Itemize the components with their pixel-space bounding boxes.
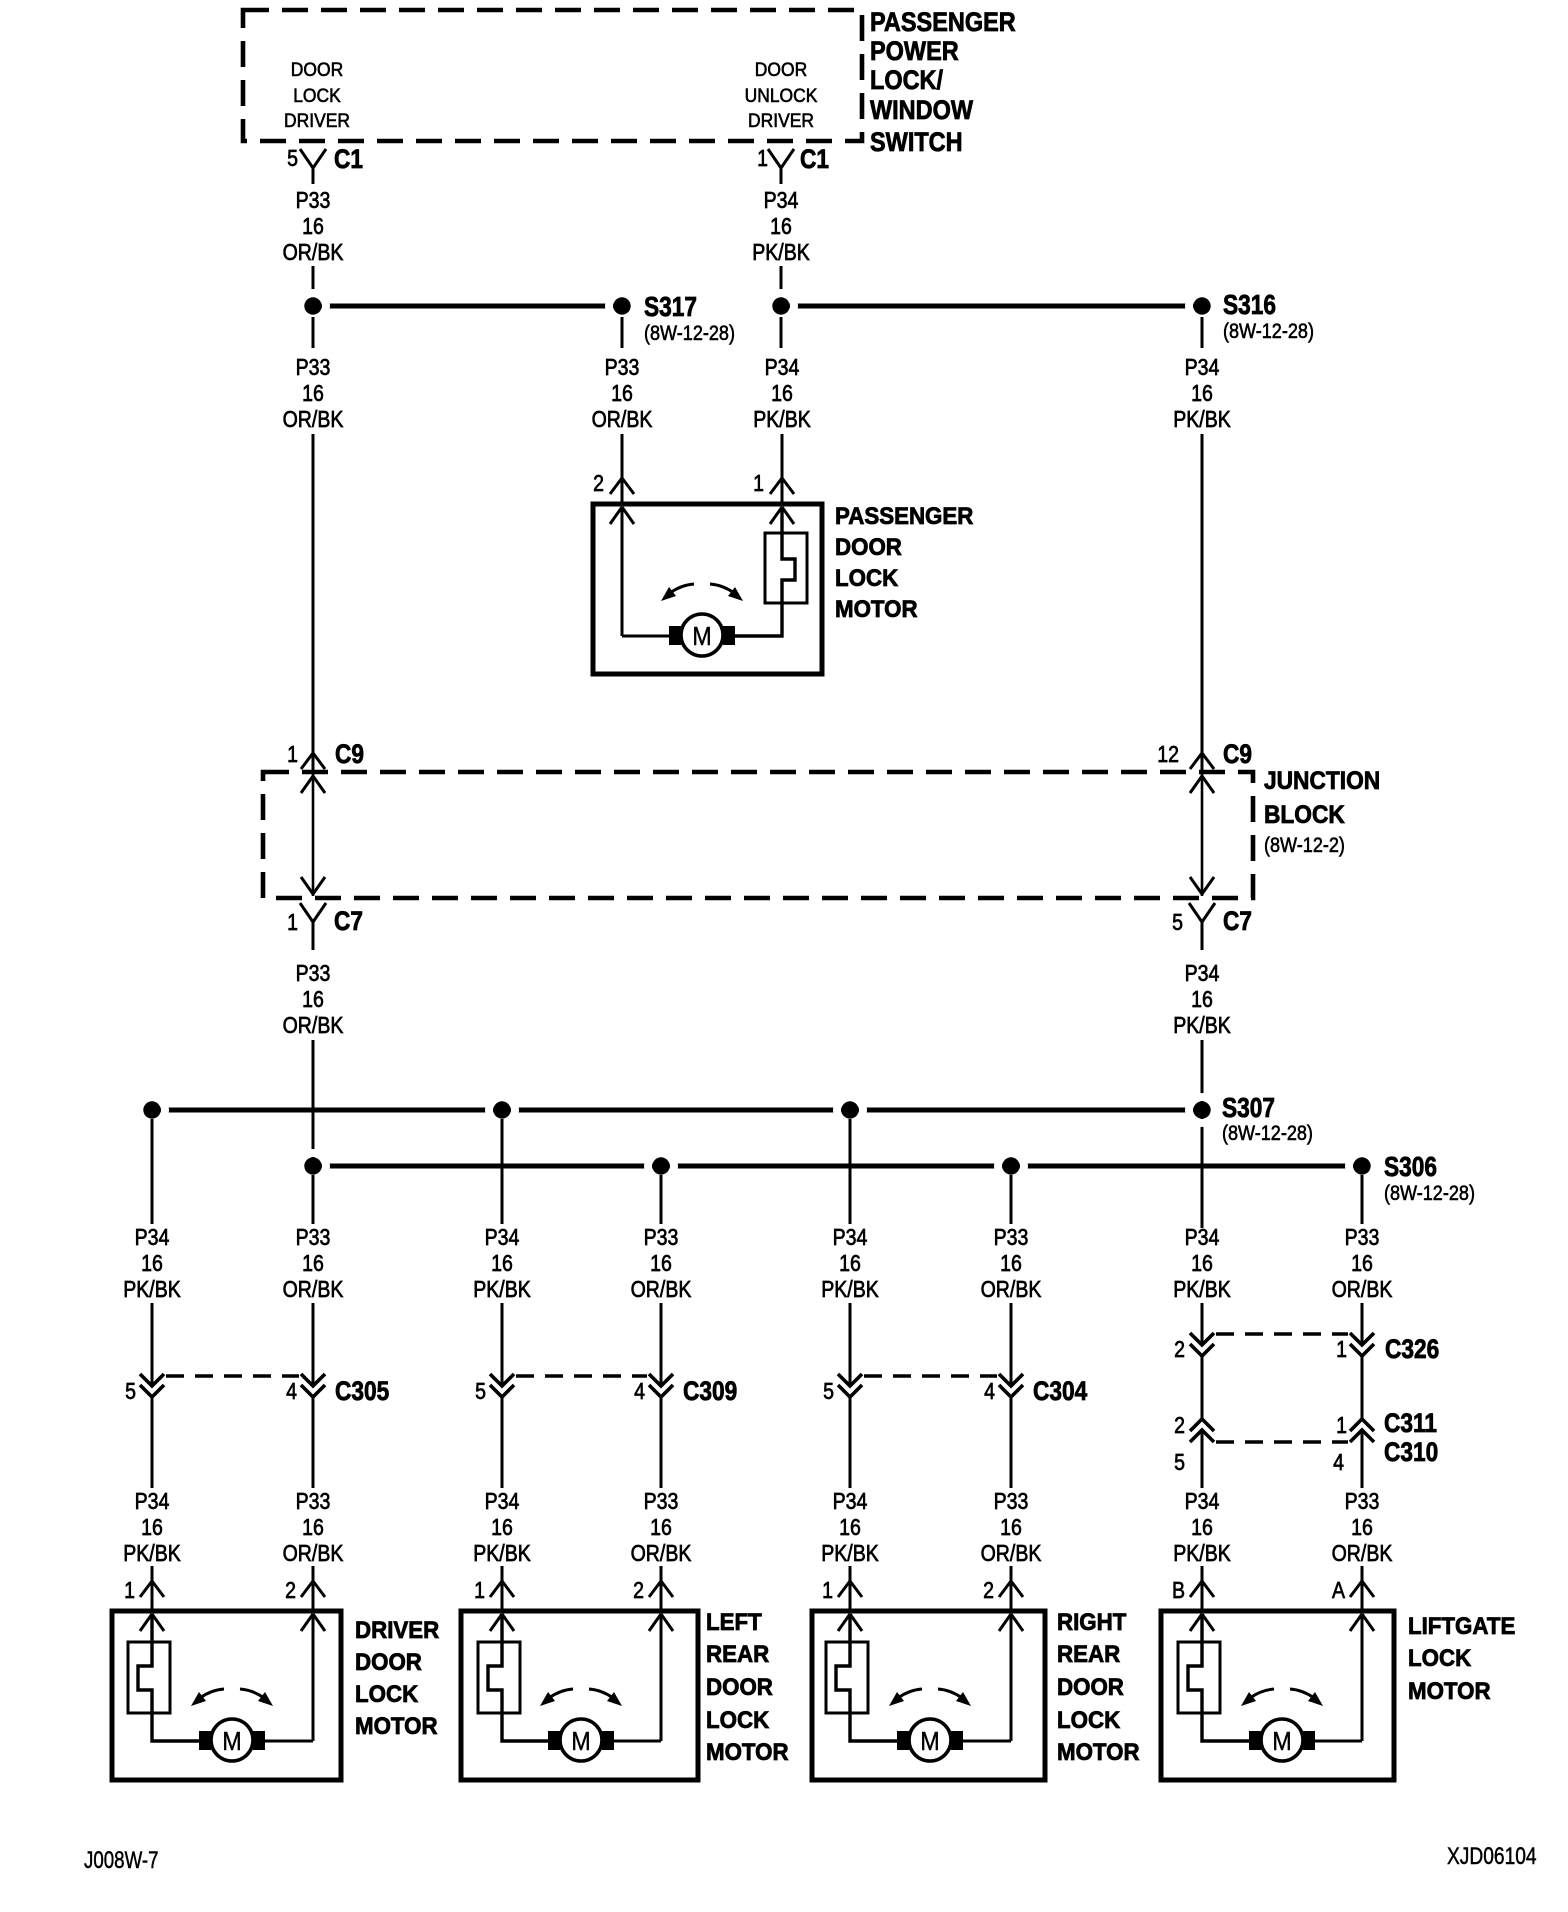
wire	[152, 1303, 313, 1386]
svg-text:P34: P34	[1185, 1489, 1220, 1515]
pin B	[1172, 1578, 1214, 1604]
svg-text:1: 1	[753, 471, 764, 497]
junction block box (dashed)	[263, 772, 1253, 898]
svg-text:P34: P34	[833, 1225, 868, 1251]
svg-text:P34: P34	[1185, 961, 1220, 987]
svg-text:16: 16	[1000, 1251, 1022, 1277]
svg-text:16: 16	[302, 214, 324, 240]
wire label P34/16/PK/BK	[1173, 1225, 1231, 1303]
wire label P34 16 PK/BK	[1173, 355, 1231, 433]
svg-text:PASSENGER: PASSENGER	[870, 8, 1016, 38]
svg-text:16: 16	[1191, 1515, 1213, 1541]
svg-text:(8W-12-28): (8W-12-28)	[1222, 1122, 1313, 1146]
svg-text:PK/BK: PK/BK	[473, 1277, 531, 1303]
svg-text:REAR: REAR	[1057, 1640, 1120, 1667]
svg-text:P33: P33	[994, 1225, 1029, 1251]
svg-text:PK/BK: PK/BK	[1173, 1013, 1231, 1039]
svg-text:2: 2	[593, 471, 604, 497]
svg-text:P34: P34	[1185, 355, 1220, 381]
svg-text:16: 16	[650, 1515, 672, 1541]
splice S307 label	[1222, 1093, 1313, 1146]
svg-text:5: 5	[1174, 1450, 1185, 1476]
wire	[265, 1614, 313, 1741]
wire	[312, 1566, 315, 1612]
svg-text:C9: C9	[1223, 739, 1252, 769]
door unlock driver label	[745, 58, 818, 131]
svg-text:MOTOR: MOTOR	[355, 1712, 438, 1739]
wire	[501, 1566, 504, 1612]
motor M	[669, 614, 735, 656]
wire	[1201, 434, 1204, 772]
svg-text:REAR: REAR	[706, 1640, 769, 1667]
wire	[1361, 1566, 1364, 1612]
svg-text:PK/BK: PK/BK	[1173, 1277, 1231, 1303]
switch box label	[870, 8, 1016, 158]
wire label P34/16/PK/BK	[821, 1225, 879, 1303]
svg-text:16: 16	[650, 1251, 672, 1277]
svg-text:PK/BK: PK/BK	[752, 240, 810, 266]
svg-text:OR/BK: OR/BK	[631, 1541, 692, 1567]
wire	[1201, 1040, 1204, 1228]
svg-text:P34: P34	[135, 1489, 170, 1515]
wire	[780, 266, 783, 297]
wire label P33 16 OR/BK	[592, 355, 653, 433]
svg-text:5: 5	[823, 1379, 834, 1405]
svg-text:16: 16	[611, 381, 633, 407]
svg-text:16: 16	[141, 1251, 163, 1277]
rotation arrows	[1241, 1689, 1323, 1706]
svg-text:16: 16	[1351, 1515, 1373, 1541]
node	[489, 1097, 515, 1123]
svg-text:OR/BK: OR/BK	[981, 1541, 1042, 1567]
wire	[151, 1119, 154, 1224]
splice S316	[1189, 290, 1314, 344]
driver door lock motor box	[112, 1611, 341, 1780]
svg-text:16: 16	[302, 987, 324, 1013]
right rear door lock motor box	[812, 1611, 1045, 1780]
svg-text:C326: C326	[1385, 1334, 1439, 1364]
wire entry arrow	[610, 507, 634, 524]
wire	[849, 1119, 852, 1224]
wire	[660, 1566, 663, 1612]
svg-text:2: 2	[1174, 1413, 1185, 1439]
wire entry arrow	[999, 1614, 1023, 1631]
svg-text:16: 16	[141, 1515, 163, 1541]
wire entry arrow	[301, 1614, 325, 1631]
svg-text:P33: P33	[1345, 1225, 1380, 1251]
svg-text:OR/BK: OR/BK	[631, 1277, 692, 1303]
svg-text:UNLOCK: UNLOCK	[745, 84, 818, 106]
svg-text:16: 16	[771, 381, 793, 407]
svg-text:16: 16	[302, 1251, 324, 1277]
svg-text:OR/BK: OR/BK	[592, 407, 653, 433]
svg-text:LOCK: LOCK	[1408, 1644, 1471, 1671]
wire entry arrow	[838, 1614, 862, 1631]
wire	[1201, 317, 1204, 348]
wire	[1010, 1566, 1013, 1612]
connector C7 pin 5	[1172, 903, 1252, 950]
svg-text:1: 1	[124, 1578, 135, 1604]
svg-text:PK/BK: PK/BK	[1173, 1541, 1231, 1567]
passenger power lock/window switch box (dashed)	[243, 10, 862, 141]
svg-text:(8W-12-28): (8W-12-28)	[1223, 320, 1314, 344]
svg-text:16: 16	[839, 1515, 861, 1541]
svg-text:S307: S307	[1222, 1093, 1275, 1124]
svg-text:P34: P34	[765, 355, 800, 381]
svg-text:(8W-12-28): (8W-12-28)	[644, 322, 735, 346]
wire	[660, 1175, 663, 1224]
svg-text:M: M	[222, 1728, 241, 1756]
svg-text:PK/BK: PK/BK	[1173, 407, 1231, 433]
svg-text:1: 1	[1336, 1413, 1347, 1439]
svg-text:LIFTGATE: LIFTGATE	[1408, 1612, 1515, 1639]
svg-text:2: 2	[633, 1578, 644, 1604]
svg-text:4: 4	[634, 1379, 645, 1405]
svg-text:C9: C9	[335, 739, 364, 769]
node	[648, 1153, 674, 1179]
svg-text:LEFT: LEFT	[706, 1608, 762, 1635]
svg-text:LOCK: LOCK	[835, 564, 898, 591]
svg-text:DOOR: DOOR	[706, 1673, 773, 1700]
wire label P34 16 PK/BK	[1173, 961, 1231, 1039]
svg-text:S317: S317	[644, 292, 697, 323]
wire label P33/16/OR/BK	[283, 1225, 344, 1303]
svg-text:C7: C7	[334, 906, 363, 936]
rotation arrows	[661, 584, 743, 601]
svg-text:2: 2	[1174, 1337, 1185, 1363]
svg-text:JUNCTION: JUNCTION	[1264, 767, 1380, 795]
connector C9 pin 12	[1157, 739, 1252, 769]
connector C309	[475, 1374, 737, 1406]
svg-text:P33: P33	[1345, 1489, 1380, 1515]
svg-text:16: 16	[302, 381, 324, 407]
pin 2	[285, 1578, 325, 1604]
svg-text:C305: C305	[335, 1376, 389, 1406]
wire label P33 16 OR/BK	[283, 188, 344, 266]
svg-text:C311: C311	[1384, 1408, 1437, 1438]
svg-text:DOOR: DOOR	[755, 58, 807, 80]
svg-text:C7: C7	[1223, 906, 1252, 936]
wire	[850, 1303, 1011, 1386]
wire	[781, 434, 784, 506]
svg-text:P34: P34	[485, 1225, 520, 1251]
svg-text:1: 1	[822, 1578, 833, 1604]
node	[139, 1097, 165, 1123]
connector C304	[823, 1374, 1087, 1406]
pin 2	[593, 471, 634, 497]
figure id J008W-7	[84, 1847, 159, 1874]
svg-text:DOOR: DOOR	[291, 58, 343, 80]
svg-text:MOTOR: MOTOR	[1057, 1738, 1140, 1765]
svg-text:DRIVER: DRIVER	[284, 109, 350, 131]
svg-text:LOCK: LOCK	[293, 84, 341, 106]
wire label P33/16/OR/BK	[283, 1489, 344, 1567]
liftgate lock motor box	[1161, 1611, 1394, 1780]
junction block internal wire	[301, 774, 325, 896]
wire splice bus left	[313, 304, 622, 309]
svg-text:4: 4	[984, 1379, 995, 1405]
wire label P33/16/OR/BK	[631, 1489, 692, 1567]
connector C1 pin 1	[757, 144, 829, 184]
wire	[502, 1303, 661, 1386]
svg-text:P34: P34	[833, 1489, 868, 1515]
wire	[622, 507, 669, 636]
wire entry arrow	[140, 1614, 164, 1631]
svg-text:LOCK: LOCK	[706, 1706, 769, 1733]
svg-text:PK/BK: PK/BK	[473, 1541, 531, 1567]
svg-text:PK/BK: PK/BK	[821, 1277, 879, 1303]
wire label P34/16/PK/BK	[473, 1225, 531, 1303]
wire label P33/16/OR/BK	[981, 1489, 1042, 1567]
svg-text:5: 5	[125, 1379, 136, 1405]
svg-text:OR/BK: OR/BK	[283, 407, 344, 433]
wire	[312, 434, 315, 772]
wire	[850, 1398, 1011, 1488]
svg-text:MOTOR: MOTOR	[835, 595, 918, 622]
splice bus S306 line	[313, 1164, 1362, 1169]
svg-text:16: 16	[1191, 381, 1213, 407]
pin 1	[474, 1578, 514, 1604]
wire label P33/16/OR/BK	[1332, 1225, 1393, 1303]
wire label P34/16/PK/BK	[1173, 1489, 1231, 1567]
svg-text:DRIVER: DRIVER	[355, 1616, 440, 1643]
driver door lock motor label	[355, 1616, 440, 1739]
motor M	[199, 1719, 265, 1761]
svg-text:16: 16	[302, 1515, 324, 1541]
wire label P34/16/PK/BK	[123, 1489, 181, 1567]
node	[1189, 1097, 1215, 1123]
wire	[963, 1614, 1011, 1741]
svg-text:OR/BK: OR/BK	[981, 1277, 1042, 1303]
svg-text:M: M	[692, 623, 711, 651]
wire	[1010, 1175, 1013, 1224]
junction block internal wire	[1190, 774, 1214, 896]
node	[768, 293, 794, 319]
svg-text:OR/BK: OR/BK	[283, 1013, 344, 1039]
svg-text:12: 12	[1157, 742, 1179, 768]
wire label P33/16/OR/BK	[1332, 1489, 1393, 1567]
wire entry arrow	[1350, 1614, 1374, 1631]
wire	[849, 1566, 852, 1612]
svg-text:M: M	[571, 1728, 590, 1756]
svg-text:P33: P33	[296, 1489, 331, 1515]
wire	[621, 434, 624, 506]
svg-text:S306: S306	[1384, 1152, 1437, 1183]
wire	[621, 317, 624, 348]
svg-text:1: 1	[1336, 1337, 1347, 1363]
wire	[614, 1614, 661, 1741]
pin 1	[753, 471, 794, 497]
svg-text:DRIVER: DRIVER	[748, 109, 814, 131]
node	[1349, 1153, 1375, 1179]
rotation arrows	[889, 1689, 971, 1706]
svg-text:DOOR: DOOR	[1057, 1673, 1124, 1700]
svg-text:MOTOR: MOTOR	[706, 1738, 789, 1765]
pin 2	[633, 1578, 673, 1604]
wire	[152, 1398, 313, 1488]
wire label P34 16 PK/BK	[753, 355, 811, 433]
wire	[312, 266, 315, 297]
pin 1	[822, 1578, 862, 1604]
svg-text:C1: C1	[334, 144, 363, 174]
svg-text:P33: P33	[296, 188, 331, 214]
svg-text:PK/BK: PK/BK	[753, 407, 811, 433]
wire	[312, 317, 315, 348]
svg-text:16: 16	[1351, 1251, 1373, 1277]
svg-text:S316: S316	[1223, 290, 1276, 321]
connector C305	[125, 1374, 389, 1406]
connector C7 pin 1	[287, 903, 363, 950]
svg-text:C309: C309	[683, 1376, 737, 1406]
lock actuator	[1178, 1614, 1249, 1741]
door lock driver label	[284, 58, 350, 131]
connector C326	[1174, 1333, 1439, 1364]
svg-text:16: 16	[839, 1251, 861, 1277]
wire label P33/16/OR/BK	[981, 1225, 1042, 1303]
wire	[151, 1566, 154, 1612]
lock actuator	[735, 507, 807, 636]
svg-text:DOOR: DOOR	[835, 533, 902, 560]
svg-text:SWITCH: SWITCH	[870, 128, 963, 158]
svg-text:P33: P33	[644, 1225, 679, 1251]
wire entry arrow	[1190, 1614, 1214, 1631]
svg-text:16: 16	[491, 1251, 513, 1277]
svg-text:DOOR: DOOR	[355, 1648, 422, 1675]
connector C9 pin 1	[287, 739, 364, 769]
splice bus S307 line	[152, 1108, 1202, 1113]
svg-text:OR/BK: OR/BK	[1332, 1541, 1393, 1567]
svg-text:P33: P33	[644, 1489, 679, 1515]
wire	[502, 1398, 661, 1488]
svg-text:5: 5	[287, 146, 298, 172]
svg-text:2: 2	[983, 1578, 994, 1604]
passenger door lock motor label	[835, 502, 974, 622]
svg-text:P34: P34	[764, 188, 799, 214]
svg-text:1: 1	[474, 1578, 485, 1604]
connector C311/C310	[1174, 1408, 1438, 1475]
svg-text:16: 16	[1191, 1251, 1213, 1277]
svg-text:MOTOR: MOTOR	[1408, 1677, 1491, 1704]
svg-text:P34: P34	[1185, 1225, 1220, 1251]
svg-text:OR/BK: OR/BK	[283, 240, 344, 266]
svg-text:OR/BK: OR/BK	[1332, 1277, 1393, 1303]
svg-text:2: 2	[285, 1578, 296, 1604]
svg-text:16: 16	[1000, 1515, 1022, 1541]
svg-text:1: 1	[287, 910, 298, 936]
svg-text:5: 5	[475, 1379, 486, 1405]
splice S306 label	[1384, 1152, 1475, 1206]
left rear door lock motor label	[706, 1608, 789, 1765]
node	[837, 1097, 863, 1123]
svg-text:WINDOW: WINDOW	[870, 96, 973, 126]
wire splice bus right	[781, 304, 1202, 309]
svg-text:P33: P33	[605, 355, 640, 381]
connector C1 pin 5	[287, 144, 363, 184]
svg-text:P34: P34	[485, 1489, 520, 1515]
svg-text:OR/BK: OR/BK	[283, 1277, 344, 1303]
passenger door lock motor box	[593, 504, 822, 674]
wire entry arrow	[649, 1614, 673, 1631]
svg-text:(8W-12-28): (8W-12-28)	[1384, 1182, 1475, 1206]
wire label P34/16/PK/BK	[473, 1489, 531, 1567]
svg-text:1: 1	[757, 146, 768, 172]
wire	[1202, 1431, 1362, 1488]
wire label P34/16/PK/BK	[821, 1489, 879, 1567]
svg-text:C304: C304	[1033, 1376, 1087, 1406]
wire	[501, 1119, 504, 1224]
svg-text:16: 16	[1191, 987, 1213, 1013]
svg-text:LOCK: LOCK	[1057, 1706, 1120, 1733]
wire	[312, 1040, 315, 1160]
svg-text:4: 4	[286, 1379, 297, 1405]
svg-text:P33: P33	[296, 961, 331, 987]
wire	[1201, 1566, 1204, 1612]
svg-text:BLOCK: BLOCK	[1264, 801, 1346, 829]
wire	[1202, 1356, 1362, 1419]
svg-text:16: 16	[491, 1515, 513, 1541]
pin A	[1332, 1578, 1374, 1604]
svg-text:C1: C1	[800, 144, 829, 174]
motor M	[548, 1719, 614, 1761]
svg-text:OR/BK: OR/BK	[283, 1541, 344, 1567]
svg-text:M: M	[1272, 1728, 1291, 1756]
svg-text:16: 16	[770, 214, 792, 240]
lock actuator	[478, 1614, 548, 1741]
svg-text:PK/BK: PK/BK	[821, 1541, 879, 1567]
wire	[1202, 1303, 1362, 1345]
svg-text:RIGHT: RIGHT	[1057, 1608, 1126, 1635]
liftgate lock motor label	[1408, 1612, 1515, 1704]
wire	[1315, 1614, 1362, 1741]
svg-text:(8W-12-2): (8W-12-2)	[1264, 834, 1345, 858]
wire label P33/16/OR/BK	[631, 1225, 692, 1303]
wire	[312, 1175, 315, 1224]
junction block label	[1264, 767, 1380, 857]
node	[300, 293, 326, 319]
svg-text:PK/BK: PK/BK	[123, 1541, 181, 1567]
rotation arrows	[540, 1689, 622, 1706]
svg-text:P34: P34	[135, 1225, 170, 1251]
wire label P33 16 OR/BK	[283, 355, 344, 433]
motor M	[1249, 1719, 1315, 1761]
svg-text:M: M	[920, 1728, 939, 1756]
left rear door lock motor box	[461, 1611, 698, 1780]
svg-text:POWER: POWER	[870, 37, 959, 67]
wire	[1361, 1175, 1364, 1224]
lock actuator	[128, 1614, 199, 1741]
svg-text:B: B	[1172, 1578, 1185, 1604]
svg-text:XJD06104: XJD06104	[1447, 1842, 1537, 1870]
svg-text:A: A	[1332, 1578, 1346, 1604]
motor M	[897, 1719, 963, 1761]
node	[998, 1153, 1024, 1179]
lock actuator	[826, 1614, 897, 1741]
svg-text:1: 1	[287, 742, 298, 768]
svg-text:J008W-7: J008W-7	[84, 1847, 159, 1874]
wire label P34 16 PK/BK	[752, 188, 810, 266]
wire label P34/16/PK/BK	[123, 1225, 181, 1303]
rotation arrows	[191, 1689, 273, 1706]
svg-text:P33: P33	[994, 1489, 1029, 1515]
svg-text:P33: P33	[296, 1225, 331, 1251]
node	[300, 1153, 326, 1179]
svg-text:LOCK/: LOCK/	[870, 66, 943, 96]
svg-text:P33: P33	[296, 355, 331, 381]
svg-text:C310: C310	[1384, 1437, 1438, 1467]
svg-text:PASSENGER: PASSENGER	[835, 502, 974, 529]
wire label P33 16 OR/BK	[283, 961, 344, 1039]
pin 1	[124, 1578, 164, 1604]
